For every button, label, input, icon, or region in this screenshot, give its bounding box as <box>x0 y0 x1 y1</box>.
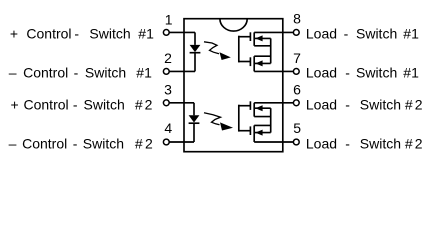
svg-text:4: 4 <box>164 120 172 136</box>
svg-text:3: 3 <box>164 82 172 98</box>
svg-text:–Control-Switch#2: –Control-Switch#2 <box>9 136 153 152</box>
svg-text:–Control-Switch#1: –Control-Switch#1 <box>9 65 152 81</box>
svg-text:2: 2 <box>164 50 172 66</box>
svg-text:8: 8 <box>293 10 301 26</box>
svg-text:+Control-Switch#2: +Control-Switch#2 <box>11 97 153 113</box>
svg-text:1: 1 <box>165 11 173 27</box>
svg-text:Load-Switch#1: Load-Switch#1 <box>306 25 419 41</box>
svg-text:Load-Switch#2: Load-Switch#2 <box>306 136 423 152</box>
svg-text:+Control-Switch#1: +Control-Switch#1 <box>10 25 154 41</box>
svg-text:Load-Switch#2: Load-Switch#2 <box>306 97 423 113</box>
svg-text:5: 5 <box>293 120 301 136</box>
svg-text:7: 7 <box>293 50 301 66</box>
svg-text:Load-Switch#1: Load-Switch#1 <box>306 65 419 81</box>
svg-text:6: 6 <box>293 82 301 98</box>
